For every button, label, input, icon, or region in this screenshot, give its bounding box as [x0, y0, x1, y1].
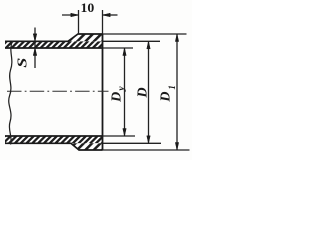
dim Dy: top extension line [103, 47, 134, 49]
dim Dy: bottom extension line [103, 135, 136, 137]
dim Dy: top arrow [123, 48, 126, 56]
dim S: upper arrow [33, 34, 37, 42]
dim 10: dimension line right tail [103, 14, 118, 16]
centerline (dash-dot axis) [7, 90, 109, 92]
dim D: bottom extension line [103, 142, 162, 144]
dim 10: right extension line [102, 10, 104, 34]
dim 10: left extension line [78, 10, 80, 34]
svg-text:10: 10 [81, 1, 95, 15]
bottom wall inner outline [5, 135, 103, 137]
dim D: bottom arrow [147, 136, 150, 144]
svg-text:S: S [16, 58, 30, 68]
dim S: lower arrow [33, 48, 37, 56]
dim D1: bottom extension line [103, 149, 190, 151]
dim 10: dimension line left tail [62, 14, 79, 16]
top collar section (hatched) [68, 34, 103, 41]
svg-text:Dy: Dy [110, 86, 127, 103]
bottom collar section (hatched) [71, 143, 103, 150]
dim S: dimension line [34, 28, 36, 69]
dim D: top arrow [147, 41, 150, 49]
dim D1: top arrow [175, 34, 178, 42]
bottom wall outer outline with collar slope [5, 143, 103, 150]
pipe top wall section (hatched) [5, 41, 103, 48]
pipe end face [102, 34, 104, 150]
dim D1: bottom arrow [175, 143, 178, 151]
svg-text:D: D [135, 87, 150, 98]
dim Dy: dimension line [124, 48, 126, 136]
dim D: dimension line [148, 41, 150, 143]
dim Dy: bottom arrow [123, 129, 126, 137]
break line (wavy) [9, 41, 13, 145]
dim D1: dimension line [176, 34, 178, 150]
top wall outer outline with collar slope [5, 34, 103, 41]
dim D1: top extension line [103, 33, 187, 35]
dim D: top extension line [103, 40, 161, 42]
dim 10: right arrow [103, 13, 111, 17]
svg-text:D1: D1 [158, 85, 177, 102]
dim 10: left arrow [71, 13, 79, 17]
pipe bottom wall section (hatched) [5, 136, 103, 143]
top wall inner outline [5, 47, 103, 49]
